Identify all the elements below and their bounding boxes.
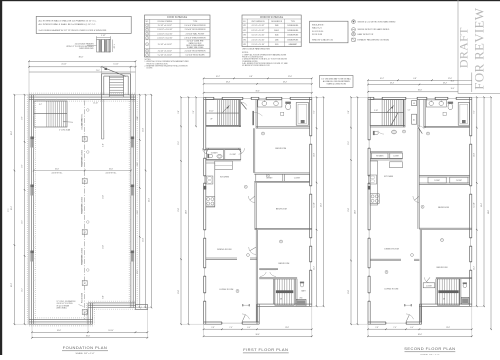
svg-text:1/2" OSB USED MAY TO BE ON WAL: 1/2" OSB USED MAY TO BE ON WALL	[321, 77, 351, 80]
svg-text:DOOR SCHEDULE: DOOR SCHEDULE	[167, 17, 188, 19]
svg-text:7 1/4": 7 1/4"	[113, 44, 115, 49]
svg-text:3'-0"x6'-8" STEEL EXTERIOR: 3'-0"x6'-8" STEEL EXTERIOR	[184, 25, 206, 27]
svg-text:BEDROOM: BEDROOM	[275, 148, 286, 150]
svg-text:KITCHEN: KITCHEN	[384, 176, 394, 178]
svg-text:10'-2": 10'-2"	[380, 78, 385, 80]
svg-text:WINDOW U-VALUE 0.32: WINDOW U-VALUE 0.32	[312, 39, 333, 42]
svg-text:2: 2	[147, 29, 148, 31]
svg-text:INSULATION :: INSULATION :	[312, 23, 325, 26]
svg-text:9'-2": 9'-2"	[314, 110, 316, 114]
svg-text:13'-8": 13'-8"	[285, 327, 289, 329]
svg-text:CLOSET: CLOSET	[456, 180, 462, 182]
svg-text:36'-6": 36'-6"	[256, 334, 261, 336]
svg-text:DOUBLEHUNG: DOUBLEHUNG	[287, 25, 299, 27]
svg-text:DN: DN	[443, 298, 445, 300]
svg-text:10'-6": 10'-6"	[451, 88, 455, 90]
svg-text:SMOKE & CO2 DETECTORS HARD WIR: SMOKE & CO2 DETECTORS HARD WIRED	[358, 20, 397, 23]
svg-text:36'-6": 36'-6"	[418, 90, 423, 92]
svg-text:ALL WALLS & CEILING BETWEEN: ALL WALLS & CEILING BETWEEN	[323, 80, 350, 83]
svg-text:W/ SUPPORT: W/ SUPPORT	[82, 255, 84, 265]
svg-text:DOUBLEHUNG: DOUBLEHUNG	[287, 39, 299, 41]
svg-text:12'-6": 12'-6"	[448, 78, 453, 80]
svg-text:2'-5 1/4" x 3'-5 1/2": 2'-5 1/4" x 3'-5 1/2"	[252, 39, 265, 41]
svg-text:4: 4	[147, 38, 148, 40]
svg-text:BEDROOM: BEDROOM	[279, 263, 290, 265]
svg-text:7'-0": 7'-0"	[393, 327, 397, 329]
svg-text:PRIOR TO CONSTRUCTION: PRIOR TO CONSTRUCTION	[242, 57, 264, 59]
svg-text:56'-4": 56'-4"	[481, 203, 483, 207]
svg-text:DINING ROOM: DINING ROOM	[217, 249, 232, 251]
svg-text:2'-4"x6'-8" WOOD INTERIOR: 2'-4"x6'-8" WOOD INTERIOR	[185, 50, 207, 52]
svg-text:CLOSET: CLOSET	[393, 156, 399, 158]
svg-text:W2: W2	[243, 30, 246, 32]
svg-text:PRIOR TO CONSTRUCTION: PRIOR TO CONSTRUCTION	[147, 63, 169, 65]
svg-text:DINING ROOM: DINING ROOM	[384, 248, 399, 250]
svg-text:36'-6": 36'-6"	[86, 335, 91, 337]
svg-text:3: 3	[147, 33, 148, 35]
svg-text:TO MEET FIRE CODES: TO MEET FIRE CODES	[187, 47, 204, 49]
svg-text:BEDROOM: BEDROOM	[438, 207, 449, 209]
svg-text:56'-4": 56'-4"	[321, 203, 323, 207]
svg-text:8'-6": 8'-6"	[137, 162, 139, 166]
svg-text:DRAFT: DRAFT	[456, 27, 470, 68]
svg-text:58'-0": 58'-0"	[186, 210, 188, 214]
svg-text:DOUBLEHUNG: DOUBLEHUNG	[287, 30, 299, 32]
svg-text:2'-8"x6'-8" WOOD INTERIOR: 2'-8"x6'-8" WOOD INTERIOR	[185, 29, 207, 31]
svg-text:36'-6": 36'-6"	[79, 56, 84, 58]
svg-text:2x6 W/ WT SILL: 2x6 W/ WT SILL	[52, 172, 63, 174]
svg-text:ALL INTERIOR WALLS SHALL BE 2x: ALL INTERIOR WALLS SHALL BE 2x4 FRAMING …	[39, 23, 97, 26]
svg-text:10'-10": 10'-10"	[209, 111, 214, 113]
svg-text:3'-2 1/2" x 6'-10 1/2": 3'-2 1/2" x 6'-10 1/2"	[158, 25, 173, 27]
svg-text:NO.: NO.	[146, 21, 150, 23]
svg-text:24'-10": 24'-10"	[61, 64, 67, 66]
svg-text:FIRST FLOOR PLAN: FIRST FLOOR PLAN	[243, 347, 288, 352]
svg-text:3'-1 1/4" x 4'-5 1/2": 3'-1 1/4" x 4'-5 1/2"	[252, 35, 265, 37]
svg-text:KITCHEN: KITCHEN	[220, 177, 230, 179]
svg-text:6'-8": 6'-8"	[413, 78, 417, 80]
svg-text:17'-0": 17'-0"	[178, 208, 180, 212]
svg-text:2x6 W/ WT SILL: 2x6 W/ WT SILL	[106, 172, 117, 174]
svg-text:7: 7	[147, 55, 148, 57]
svg-text:6: 6	[147, 50, 148, 52]
svg-text:DOORS: DOORS	[147, 68, 153, 70]
svg-text:43'-4": 43'-4"	[149, 198, 151, 202]
svg-text:6'-2 1/4" x 4'-5 1/2": 6'-2 1/4" x 4'-5 1/2"	[252, 30, 265, 32]
svg-text:2'-10": 2'-10"	[96, 70, 100, 72]
svg-text:8'-6": 8'-6"	[21, 164, 23, 167]
svg-text:36'-6": 36'-6"	[451, 81, 455, 83]
svg-text:NOTES:: NOTES:	[145, 59, 152, 61]
svg-text:16'-6": 16'-6"	[55, 168, 60, 170]
svg-text:3046: 3046	[275, 35, 279, 37]
svg-text:5: 5	[147, 44, 148, 46]
svg-text:6'-2": 6'-2"	[39, 104, 43, 106]
svg-text:LIVING ROOM: LIVING ROOM	[384, 289, 398, 291]
svg-text:16'-6": 16'-6"	[109, 168, 114, 170]
svg-text:SELF CLOSING HINGES: SELF CLOSING HINGES	[186, 45, 204, 47]
svg-text:13'-10": 13'-10"	[474, 202, 476, 207]
svg-text:CLOSET: CLOSET	[426, 285, 432, 287]
svg-text:18'-10": 18'-10"	[108, 330, 114, 332]
svg-text:13'-8": 13'-8"	[446, 327, 450, 329]
svg-text:8'-0": 8'-0"	[103, 295, 105, 299]
svg-text:W4: W4	[243, 39, 246, 41]
svg-text:CLOSET: CLOSET	[266, 178, 272, 180]
svg-text:W3: W3	[243, 35, 246, 37]
svg-text:10'-10": 10'-10"	[113, 64, 119, 66]
svg-text:17'-0": 17'-0"	[348, 208, 350, 212]
svg-text:12'-6": 12'-6"	[288, 76, 293, 78]
svg-text:1: 1	[147, 25, 148, 27]
svg-text:UNIT DIMENSION: UNIT DIMENSION	[251, 21, 265, 23]
svg-text:WINDOW SCHEDULE: WINDOW SCHEDULE	[260, 17, 284, 19]
svg-text:ROUGH OPENING: ROUGH OPENING	[158, 21, 173, 23]
svg-text:2'-10 1/2" x 6'-10 1/2": 2'-10 1/2" x 6'-10 1/2"	[157, 29, 173, 31]
svg-text:18'-4": 18'-4"	[390, 82, 395, 84]
svg-text:BEDROOM: BEDROOM	[437, 267, 448, 269]
svg-text:15'-8": 15'-8"	[314, 153, 316, 157]
svg-text:9'-10": 9'-10"	[374, 110, 378, 112]
svg-text:HEAT DETECTOR: HEAT DETECTOR	[358, 33, 374, 36]
svg-text:LIN: LIN	[413, 103, 415, 105]
svg-text:8'-0": 8'-0"	[21, 116, 23, 119]
svg-text:2436: 2436	[275, 39, 279, 41]
svg-text:2'-8": 2'-8"	[211, 327, 215, 329]
svg-text:11'-0": 11'-0"	[103, 195, 105, 199]
svg-text:11'-6": 11'-6"	[348, 141, 350, 145]
svg-text:SECOND FLOOR PLAN: SECOND FLOOR PLAN	[404, 346, 455, 351]
svg-text:FOR REVIEW: FOR REVIEW	[471, 7, 486, 90]
svg-text:58'-0": 58'-0"	[488, 210, 490, 214]
svg-text:36'-6": 36'-6"	[418, 334, 423, 336]
svg-text:COLUMN (TYP): COLUMN (TYP)	[82, 118, 84, 130]
svg-text:TYPE: TYPE	[291, 21, 295, 23]
svg-text:W/ SUPPORT: W/ SUPPORT	[82, 157, 84, 167]
svg-text:2020: 2020	[275, 44, 279, 46]
svg-text:12'-10": 12'-10"	[93, 103, 98, 105]
svg-text:13'-10": 13'-10"	[314, 202, 316, 207]
svg-text:DOUBLEHUNG: DOUBLEHUNG	[287, 35, 299, 37]
svg-text:16'-6": 16'-6"	[57, 330, 62, 332]
svg-text:2'-10 1/2" x 6'-10 1/2": 2'-10 1/2" x 6'-10 1/2"	[157, 33, 173, 35]
svg-text:OVER WINDOWS: OVER WINDOWS	[79, 48, 94, 50]
svg-text:2'-8": 2'-8"	[375, 327, 379, 329]
svg-text:CLOSET: CLOSET	[294, 178, 300, 180]
svg-text:FLOOR R-30: FLOOR R-30	[312, 31, 323, 33]
svg-text:11'-0": 11'-0"	[103, 245, 105, 249]
svg-text:11'-2": 11'-2"	[21, 288, 23, 292]
svg-text:15'-8": 15'-8"	[474, 153, 476, 157]
svg-text:3046-2: 3046-2	[274, 30, 279, 32]
svg-text:13'-2": 13'-2"	[11, 282, 13, 287]
svg-text:10'-2": 10'-2"	[216, 76, 221, 78]
svg-text:ROOF R-38: ROOF R-38	[312, 34, 322, 36]
svg-text:12'-8": 12'-8"	[11, 130, 13, 135]
svg-text:18'-4": 18'-4"	[226, 82, 231, 84]
svg-text:21'-0": 21'-0"	[348, 290, 350, 294]
svg-text:BEDROOM: BEDROOM	[276, 208, 287, 210]
svg-text:6'-8": 6'-8"	[249, 76, 253, 78]
svg-text:18'-2": 18'-2"	[283, 82, 288, 84]
svg-text:STAIRS & LIVING ROOM: STAIRS & LIVING ROOM	[327, 83, 347, 86]
svg-text:DN: DN	[280, 298, 282, 300]
svg-text:11'-6": 11'-6"	[21, 220, 23, 224]
svg-text:SMOKE DETECTORS HARD WIRED: SMOKE DETECTORS HARD WIRED	[358, 28, 390, 31]
svg-text:5'-2 1/2" x 6'-10 1/2": 5'-2 1/2" x 6'-10 1/2"	[158, 55, 173, 57]
svg-text:4'-1 1/4" x 4'-5 1/2": 4'-1 1/4" x 4'-5 1/2"	[252, 25, 265, 27]
svg-text:8'-6": 8'-6"	[137, 210, 139, 214]
svg-text:7'-0": 7'-0"	[229, 327, 233, 329]
svg-text:2x6 DOUBLE HEADER W/ 1/2" PLYW: 2x6 DOUBLE HEADER W/ 1/2" PLYWOOD OVER D…	[39, 29, 107, 32]
svg-text:CLOSET: CLOSET	[434, 180, 440, 182]
svg-text:5 1/2": 5 1/2"	[101, 35, 106, 37]
svg-text:6'-0": 6'-0"	[247, 327, 251, 329]
svg-text:22'-2": 22'-2"	[474, 266, 476, 270]
svg-text:2'-6 1/2" x 6'-10 1/2": 2'-6 1/2" x 6'-10 1/2"	[158, 50, 173, 52]
svg-text:9'-8": 9'-8"	[178, 110, 180, 114]
svg-text:LIN: LIN	[414, 119, 416, 121]
svg-text:ALL EXTERIOR WALLS SHALL BE 2x: ALL EXTERIOR WALLS SHALL BE 2x6 FRAMING …	[39, 19, 97, 22]
svg-text:58'-0": 58'-0"	[355, 210, 357, 214]
svg-text:FOUNDATION PLAN: FOUNDATION PLAN	[63, 345, 107, 350]
svg-text:11'-6": 11'-6"	[178, 141, 180, 145]
svg-text:2'-8"x6'-8" STEEL EXTERIOR: 2'-8"x6'-8" STEEL EXTERIOR	[184, 38, 206, 40]
svg-text:21'-8": 21'-8"	[143, 238, 145, 242]
svg-text:3'-2 1/2" x 6'-10 1/2": 3'-2 1/2" x 6'-10 1/2"	[158, 44, 173, 46]
svg-text:W1: W1	[243, 25, 246, 27]
svg-text:NOTES:: NOTES:	[242, 52, 249, 54]
svg-text:W5: W5	[243, 44, 246, 46]
svg-text:6'-0": 6'-0"	[410, 327, 414, 329]
svg-text:EXHAUST FAN (VENTED OUTSIDE): EXHAUST FAN (VENTED OUTSIDE)	[358, 38, 390, 41]
svg-text:58'-0": 58'-0"	[8, 207, 10, 212]
svg-text:8'-0": 8'-0"	[137, 116, 139, 120]
svg-text:4'-0": 4'-0"	[103, 143, 105, 147]
svg-text:CLOSET: CLOSET	[230, 154, 236, 156]
svg-text:2'-1 1/4" x 2'-1 1/4": 2'-1 1/4" x 2'-1 1/4"	[252, 44, 265, 46]
svg-text:21'-8": 21'-8"	[143, 128, 145, 132]
svg-text:9'-2": 9'-2"	[474, 110, 476, 114]
svg-text:2'-10 1/2" x 6'-10 1/2": 2'-10 1/2" x 6'-10 1/2"	[157, 38, 173, 40]
svg-text:OTHERWISE NOTED: OTHERWISE NOTED	[242, 61, 258, 63]
svg-text:12'-6": 12'-6"	[137, 270, 139, 274]
svg-text:W/ SUPPORT: W/ SUPPORT	[82, 204, 84, 214]
svg-text:9'-8": 9'-8"	[193, 110, 195, 113]
svg-text:WALL R-21: WALL R-21	[312, 27, 322, 30]
svg-text:LIVING ROOM: LIVING ROOM	[219, 289, 233, 291]
svg-text:21'-0": 21'-0"	[178, 290, 180, 294]
svg-text:5'-0"x6'-8" WOOD SLIDER: 5'-0"x6'-8" WOOD SLIDER	[186, 55, 206, 57]
svg-text:18'-2": 18'-2"	[443, 82, 448, 84]
svg-text:USE DOUBLE PANE WINDOWS: USE DOUBLE PANE WINDOWS	[242, 47, 271, 50]
svg-text:22'-2": 22'-2"	[314, 266, 316, 270]
svg-text:9'-8": 9'-8"	[348, 110, 350, 114]
svg-text:12'-6": 12'-6"	[11, 205, 13, 210]
svg-text:UP: UP	[210, 119, 212, 121]
svg-text:3'-0"x6'-8" 20 MIN. FIRE: 3'-0"x6'-8" 20 MIN. FIRE	[187, 41, 204, 43]
svg-text:36'-6": 36'-6"	[256, 90, 261, 92]
svg-text:2846: 2846	[275, 25, 279, 27]
svg-text:ON 24"x12" FOOTING: ON 24"x12" FOOTING	[57, 303, 74, 305]
